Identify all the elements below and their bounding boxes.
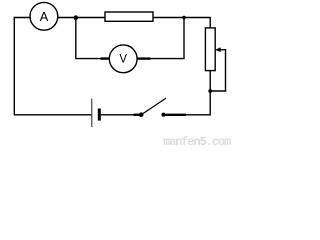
svg-text:A: A	[40, 9, 49, 24]
svg-text:V: V	[119, 53, 127, 65]
svg-text:manfen5.com: manfen5.com	[163, 135, 231, 146]
